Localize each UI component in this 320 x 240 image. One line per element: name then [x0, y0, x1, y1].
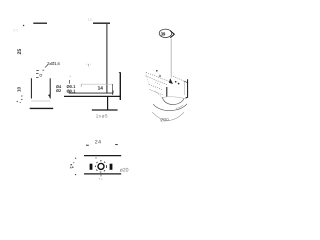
center hole ring [98, 163, 104, 169]
iso slab second edge [146, 76, 168, 85]
dim line 14 left tick [80, 84, 82, 87]
svg-text:14: 14 [98, 85, 104, 91]
side view right vertical top tick [119, 72, 121, 74]
leader arrowhead on right edge [48, 94, 51, 98]
iso slab top edge [146, 72, 169, 81]
bottom dim left dash [86, 144, 89, 146]
extension tick above blocks [69, 80, 71, 84]
tolerance block 2 [67, 84, 77, 94]
left slot block [90, 164, 93, 170]
bottom view bottom edge [84, 173, 121, 175]
iso slab left edge [146, 73, 149, 85]
svg-text:12: 12 [88, 17, 93, 22]
side view right vertical [119, 73, 121, 100]
left datum cluster [70, 162, 74, 168]
cylinder top rim closure [162, 97, 184, 99]
balloon ellipse [159, 29, 172, 37]
iso slab corner edge [155, 91, 162, 98]
thread dashed circle [95, 161, 106, 172]
bottom view top edge [84, 155, 121, 157]
cylinder mid rim [153, 104, 187, 111]
side view bottom line C [92, 109, 118, 111]
front view bottom flange line [30, 107, 54, 109]
svg-text:25: 25 [17, 49, 23, 55]
centerline tick above [95, 157, 97, 159]
tiny dot mark [70, 76, 71, 77]
extension tick right [112, 84, 114, 95]
iso asterisk mark [156, 70, 158, 72]
top view right edge line [93, 22, 110, 24]
line A with end ticks [69, 90, 113, 93]
iso right vertical [185, 79, 187, 98]
iso slab top corner mark [155, 82, 161, 85]
iso front left vertical [166, 87, 168, 97]
centerline tick below [100, 175, 102, 177]
center line vertical [106, 24, 108, 93]
leader marks [175, 81, 180, 85]
iso slab far top edge [173, 76, 185, 82]
iso right face light edge [184, 82, 186, 95]
cylinder bottom arc [152, 112, 184, 120]
cylinder top rim [162, 97, 184, 104]
top view left edge line [33, 22, 47, 24]
svg-text:ø20: ø20 [120, 168, 129, 174]
left small tick dots [17, 95, 23, 103]
iso top far corner dark dash [184, 81, 188, 83]
extension dot bottom [75, 174, 76, 175]
dim line 14 light [81, 83, 113, 85]
svg-text:2:1: 2:1 [13, 29, 18, 33]
extension dot top [75, 158, 76, 159]
small dashes above front view [36, 70, 44, 77]
leader arrowhead on part [169, 78, 173, 84]
balloon leader line [170, 39, 172, 78]
iso slab lower edge [150, 90, 164, 96]
front view left edge [30, 78, 32, 98]
svg-text:2xØ1,6: 2xØ1,6 [47, 61, 60, 66]
side view top line B [64, 95, 121, 97]
svg-text:39: 39 [161, 31, 166, 36]
svg-text:10: 10 [17, 86, 22, 92]
cylinder inner curl [176, 105, 183, 108]
small circle mark above front view [40, 74, 42, 76]
callout leader bend [45, 65, 48, 68]
corner dot [23, 25, 24, 26]
faint marks below [99, 178, 103, 180]
front view right edge [49, 78, 51, 98]
front view faint bottom line [31, 100, 50, 102]
side view web vertical [107, 96, 109, 110]
balloon arrow [170, 31, 174, 38]
svg-text:′t′: ′t′ [87, 63, 92, 68]
right slot block [110, 164, 113, 170]
bottom dim right dash [115, 144, 118, 146]
iso slab bottom edge [149, 84, 162, 89]
svg-text:24: 24 [95, 139, 102, 145]
svg-text:Ø20: Ø20 [160, 117, 169, 123]
svg-text:2xø5: 2xø5 [96, 114, 108, 119]
svg-text:Ø2: Ø2 [56, 88, 62, 93]
tolerance block 1 [56, 84, 62, 93]
